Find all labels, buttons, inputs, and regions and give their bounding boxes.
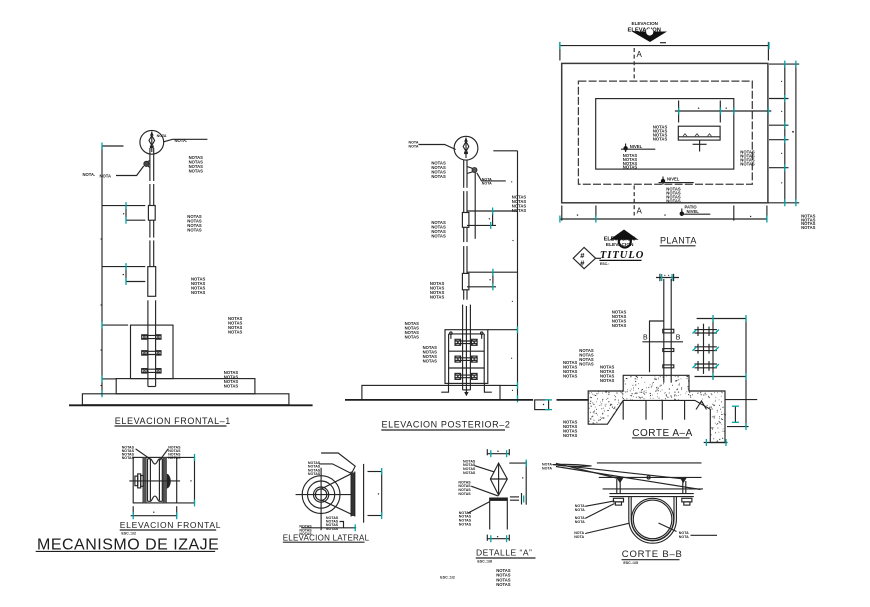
- svg-text:NOTASNOTASNOTASNOTAS: NOTASNOTASNOTASNOTAS: [463, 459, 476, 474]
- roof line B1: [597, 462, 702, 464]
- svg-text:NOTASNOTASNOTASNOTAS: NOTASNOTASNOTASNOTAS: [458, 480, 471, 495]
- bolt bar with X nuts P2: [455, 356, 477, 362]
- V clip left B: [616, 478, 623, 484]
- guy-wire diagonals B: [553, 463, 701, 489]
- svg-text:A: A: [637, 207, 643, 216]
- svg-text:NOTASNOTASNOTASNOTAS: NOTASNOTASNOTASNOTAS: [423, 345, 438, 364]
- cyan ticks planta right: [785, 61, 796, 207]
- cyan ticks right dims C: [713, 315, 746, 430]
- ground line P continuation: [557, 399, 589, 401]
- leader lines PF: [136, 449, 169, 461]
- svg-text:NOTASNOTASNOTASNOTAS: NOTASNOTASNOTASNOTAS: [600, 365, 615, 384]
- svg-text:NOTASNOTASNOTASNOTAS: NOTASNOTASNOTASNOTAS: [801, 213, 816, 230]
- elevation symbol (by titulo): [604, 230, 639, 249]
- side plate left PF: [143, 457, 146, 503]
- svg-text:NOTASNOTASNOTASNOTAS: NOTASNOTASNOTASNOTAS: [308, 461, 321, 476]
- planta bottom dimension line: [560, 206, 767, 223]
- section mark A (top): [634, 48, 642, 79]
- svg-text:NOTASNOTASNOTASNOTAS: NOTASNOTASNOTASNOTAS: [431, 160, 446, 179]
- svg-text:ELEVACION: ELEVACION: [604, 236, 635, 242]
- notes stack D2 + leader: [458, 480, 498, 496]
- anchor base box P outer: [445, 330, 488, 384]
- title CORTE B-B: [622, 549, 683, 565]
- svg-text:NOTASNOTASNOTASNOTAS: NOTASNOTASNOTASNOTAS: [405, 321, 420, 340]
- svg-text:NOTASNOTASNOTASNOTAS: NOTASNOTASNOTASNOTAS: [563, 419, 578, 438]
- svg-text:NOTA: NOTA: [542, 467, 552, 471]
- right dimension line P: [467, 151, 518, 399]
- bolt shaft left B: [617, 479, 620, 494]
- mounting plate double line B: [609, 494, 693, 497]
- leader stack B1: [575, 501, 615, 512]
- top-left NOTA labels B: [542, 462, 552, 470]
- section B-B mark: [642, 335, 683, 342]
- svg-text:NIVEL: NIVEL: [687, 209, 700, 214]
- dimension over pedestal: [675, 101, 771, 123]
- planta right dim dots: [781, 81, 794, 184]
- svg-text:NOTASNOTASNOTASNOTAS: NOTASNOTASNOTASNOTAS: [579, 348, 594, 367]
- svg-text:NOTASNOTASNOTASNOTAS: NOTASNOTASNOTASNOTAS: [431, 220, 446, 239]
- svg-text:B: B: [676, 335, 681, 342]
- roof line B2: [599, 476, 702, 478]
- svg-text:NIVEL: NIVEL: [667, 177, 680, 182]
- svg-text:NOTA: NOTA: [100, 173, 112, 178]
- column below finial D: [490, 498, 508, 530]
- top dimension D: [487, 449, 509, 457]
- finial diamond D: [490, 463, 507, 495]
- pole top dim ticks C: [656, 274, 679, 281]
- right leader + NOTA B: [659, 523, 718, 539]
- svg-text:A: A: [637, 50, 643, 59]
- svg-text:NOTANOTA: NOTANOTA: [575, 516, 585, 524]
- pulley head circle P: [454, 136, 478, 160]
- svg-text:ELEVACION LATERAL: ELEVACION LATERAL: [283, 533, 370, 542]
- title ELEVACION FRONTAL (pulley): [120, 520, 221, 535]
- planta top dimension line: [560, 42, 769, 61]
- nivel marker (left inside planta): [621, 144, 655, 153]
- anchor bolt side view group C: [695, 324, 717, 374]
- svg-text:NOTA.: NOTA.: [83, 172, 96, 177]
- cyan dimension ticks F: [102, 143, 126, 398]
- svg-text:ELEVACION: ELEVACION: [632, 21, 659, 26]
- pulley spool PF: [148, 459, 163, 502]
- right dimension lines C: [695, 319, 749, 427]
- anchor bolt bar F1: [142, 335, 161, 339]
- left dimension line F: [102, 146, 145, 396]
- ground line F: [69, 404, 313, 406]
- halyard pulley attachment circle F: [144, 160, 150, 167]
- anchor bolt bar F3: [142, 369, 161, 373]
- anchor bolt bar F2: [142, 351, 161, 355]
- ground line P: [345, 399, 533, 401]
- title ELEVACION POSTERIOR-2: [381, 419, 510, 430]
- halyard attachment circle P: [467, 167, 477, 174]
- mast pole F (double line with breaks): [148, 148, 156, 387]
- svg-text:NOTASNOTASNOTASNOTAS: NOTASNOTASNOTASNOTAS: [430, 281, 445, 300]
- mast joint sleeve P2: [462, 273, 469, 289]
- pulley head circle F: [140, 130, 164, 154]
- anchor base box P inner frame: [449, 334, 485, 384]
- pole couplings C: [663, 329, 674, 368]
- pulley frame rect PF: [133, 457, 177, 503]
- svg-text:PLANTA: PLANTA: [660, 236, 697, 246]
- ground line right of footing C: [725, 399, 757, 401]
- svg-text:NOTANOTA: NOTANOTA: [679, 531, 689, 539]
- cyan ticks on anchor bolts C: [693, 330, 719, 369]
- leader stack B2: [575, 504, 615, 525]
- svg-text:NOTASNOTASNOTASNOTAS: NOTASNOTASNOTASNOTAS: [612, 309, 627, 328]
- pipe section B (double circle): [632, 498, 674, 540]
- svg-text:NOTASNOTASNOTASNOTAS: NOTASNOTASNOTASNOTAS: [653, 125, 668, 142]
- svg-text:TITULO: TITULO: [600, 250, 645, 261]
- svg-text:NOTASNOTASNOTASNOTAS: NOTASNOTASNOTASNOTAS: [740, 150, 755, 167]
- side plate right PF: [163, 457, 166, 503]
- title ELEVACION FRONTAL-1: [115, 416, 231, 426]
- svg-text:NOTANOTA: NOTANOTA: [574, 531, 584, 539]
- mast joint sleeve F1: [148, 206, 155, 221]
- section mark A (bottom): [634, 186, 642, 216]
- nut left under plate B: [613, 498, 623, 505]
- svg-text:NOTASNOTASNOTASNOTAS: NOTASNOTASNOTASNOTAS: [326, 516, 339, 531]
- dimension dots F: [100, 213, 124, 386]
- svg-text:NOTA: NOTA: [482, 181, 492, 185]
- svg-text:NOTA: NOTA: [409, 144, 419, 148]
- right dimension L: [368, 468, 382, 519]
- bolt bar with X nuts P1: [455, 339, 477, 345]
- bolt shaft right B: [683, 481, 686, 494]
- finial inside circle P: [463, 138, 469, 159]
- leader + NOTA labels top-left P: [409, 141, 456, 150]
- rebar ticks under slab C: [623, 400, 684, 419]
- title DETALLE A: [476, 547, 536, 563]
- concrete stipple texture C: [588, 375, 726, 442]
- mid notes + bracket leader L: [326, 516, 344, 531]
- svg-text:NOTASNOTASNOTASNOTAS: NOTASNOTASNOTASNOTAS: [512, 195, 527, 214]
- svg-text:NOTASNOTASNOTASNOTAS: NOTASNOTASNOTASNOTAS: [623, 153, 638, 170]
- svg-text:NOTASNOTASNOTASNOTAS: NOTASNOTASNOTASNOTAS: [224, 370, 239, 389]
- bolt bar with X nuts P3: [455, 373, 477, 379]
- svg-text:NOTASNOTASNOTASNOTAS: NOTASNOTASNOTASNOTAS: [228, 316, 243, 335]
- corner bolt circles P: [450, 332, 483, 339]
- pedestal plan rectangle: [678, 126, 720, 140]
- nivel marker (bottom inside planta): [659, 177, 694, 185]
- bottom dimension PF: [131, 506, 177, 519]
- svg-text:NOTASNOTASNOTASNOTAS: NOTASNOTASNOTASNOTAS: [666, 187, 681, 204]
- V clip right B: [680, 478, 687, 484]
- patio nivel marker: [680, 204, 711, 216]
- svg-text:ESC.:1/2: ESC.:1/2: [121, 532, 136, 536]
- titulo diamond symbol: [573, 247, 601, 268]
- top leader + notes L: [308, 461, 351, 476]
- svg-text:NOTASNOTASNOTASNOTAS: NOTASNOTASNOTASNOTAS: [189, 155, 204, 174]
- svg-text:NOTASNOTASNOTASNOTAS: NOTASNOTASNOTASNOTAS: [459, 511, 472, 526]
- mast joint sleeve F2: [148, 267, 156, 297]
- dimension dots P: [489, 181, 514, 391]
- svg-text:CORTE B–B: CORTE B–B: [622, 549, 683, 560]
- notes stack D3 + leader: [459, 502, 490, 527]
- nut right under plate B: [682, 498, 692, 505]
- bolt head left PF: [135, 474, 143, 488]
- mast pole P (double line with breaks): [463, 160, 471, 392]
- bottom dimension D: [487, 535, 509, 543]
- concentric pulley circles L: [302, 476, 340, 514]
- svg-text:CORTE A–A: CORTE A–A: [632, 428, 692, 439]
- foundation slab P: [362, 385, 500, 400]
- pole section C: [664, 279, 671, 383]
- nut right PF: [167, 474, 171, 489]
- pedestal face outline C: [650, 321, 664, 372]
- svg-text:NOTASNOTASNOTASNOTAS: NOTASNOTASNOTASNOTAS: [563, 360, 578, 379]
- svg-text:ELEVACION FRONTAL: ELEVACION FRONTAL: [120, 520, 221, 530]
- concrete footing outline C: [588, 375, 725, 442]
- svg-text:NOTASNOTASNOTASNOTAS: NOTASNOTASNOTASNOTAS: [496, 568, 511, 587]
- small circle on line B: [647, 476, 650, 479]
- svg-text:ESC.:: ESC.:: [600, 262, 610, 266]
- planta outer rectangle: [562, 63, 768, 202]
- title CORTE A-A: [632, 428, 693, 439]
- svg-text:ELEVACION FRONTAL–1: ELEVACION FRONTAL–1: [115, 416, 231, 426]
- leader to head circle right: [164, 138, 208, 143]
- pedestal plinth F: [116, 379, 255, 394]
- svg-text:NOTANOTA: NOTANOTA: [575, 504, 585, 512]
- svg-text:NOTASNOTASNOTASNOTAS: NOTASNOTASNOTASNOTAS: [187, 214, 202, 233]
- leader + NOTA labels left of mast F: [83, 166, 144, 179]
- leader + NOTA labels right of head P: [477, 173, 506, 186]
- halyard rope line P: [474, 172, 476, 238]
- mounting plate L: [351, 472, 355, 517]
- svg-text:NOTASNOTASNOTASNOTAS: NOTASNOTASNOTASNOTAS: [122, 445, 135, 460]
- svg-text:NOTASNOTASNOTASNOTAS: NOTASNOTASNOTASNOTAS: [191, 276, 206, 295]
- svg-text:NOTA: NOTA: [157, 134, 167, 138]
- svg-text:ESC.:1/8: ESC.:1/8: [477, 559, 492, 563]
- planta second rectangle (dashed): [578, 81, 752, 184]
- planta right dimension lines: [768, 63, 800, 202]
- titulo text: [599, 250, 644, 266]
- notes stack D1 + leader: [463, 459, 494, 474]
- ground step detail box P: [535, 400, 552, 410]
- north/elevation marker above planta: [628, 21, 668, 43]
- U-bolt strap B: [629, 497, 677, 544]
- svg-text:DETALLE “A”: DETALLE “A”: [476, 547, 532, 557]
- svg-text:ELEVACION POSTERIOR–2: ELEVACION POSTERIOR–2: [382, 419, 511, 429]
- big title MECANISMO DE IZAJE: [36, 536, 220, 553]
- axle centerline PF: [129, 480, 180, 482]
- svg-text:ELEVACION: ELEVACION: [606, 242, 634, 248]
- crosshair centerlines L: [296, 468, 352, 531]
- top bracket L: [321, 453, 355, 473]
- right dimension D: [509, 460, 526, 505]
- right dimension PF: [177, 454, 195, 507]
- arrow tip at pole bottom P: [464, 392, 468, 396]
- cyan dimension ticks P: [491, 208, 518, 403]
- svg-text:ESC.:1/2: ESC.:1/2: [440, 576, 455, 580]
- notch arrow mark C: [696, 401, 707, 410]
- roof line B3: [603, 488, 703, 490]
- ground line left of footing C: [557, 399, 589, 401]
- svg-text:NIVEL: NIVEL: [630, 144, 643, 149]
- anchor J-bolts under box P: [441, 383, 492, 392]
- bottom key dim C: [704, 439, 728, 446]
- svg-text:MECANISMO DE IZAJE: MECANISMO DE IZAJE: [37, 536, 219, 553]
- title PLANTA: [660, 236, 697, 246]
- svg-text:ESC.:1/5: ESC.:1/5: [623, 561, 638, 565]
- svg-text:NOTA.: NOTA.: [175, 138, 188, 143]
- pedestal T mark below: [693, 140, 707, 151]
- mast joint sleeve P1: [462, 213, 469, 228]
- leader stack B3: [574, 523, 629, 539]
- foundation slab F: [82, 394, 289, 405]
- title ELEVACION LATERAL: [283, 533, 370, 542]
- wall line L: [363, 464, 365, 523]
- planta third rectangle: [596, 99, 734, 170]
- svg-text:B: B: [643, 335, 648, 342]
- bottom leader + notes L: [299, 524, 356, 536]
- bracket diagonals L: [322, 474, 351, 514]
- anchor base box F: [131, 325, 174, 379]
- finial / top anchor inside circle F: [149, 132, 155, 153]
